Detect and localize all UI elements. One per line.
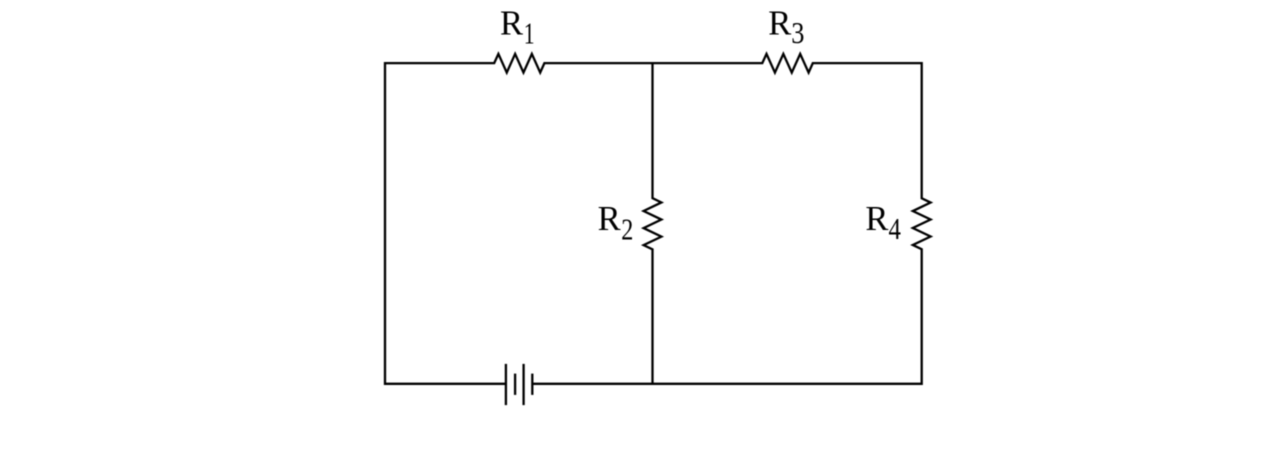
svg-text:R: R: [598, 200, 621, 238]
svg-text:2: 2: [621, 213, 633, 248]
svg-text:R: R: [500, 4, 523, 42]
svg-text:R: R: [768, 4, 791, 42]
svg-text:4: 4: [889, 213, 901, 247]
svg-text:3: 3: [791, 16, 804, 50]
svg-text:1: 1: [524, 16, 535, 51]
svg-text:R: R: [865, 200, 888, 238]
